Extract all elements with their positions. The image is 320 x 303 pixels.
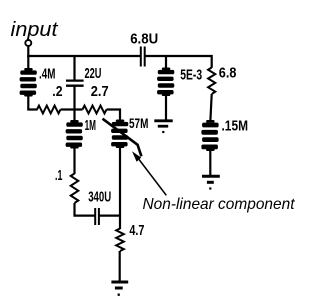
ground below 5E-3 <box>154 121 172 132</box>
non-linear slash through 57M <box>103 119 142 157</box>
svg-text:.4M: .4M <box>39 67 55 83</box>
inductor .15M <box>201 120 218 151</box>
capacitor 22U <box>66 81 84 86</box>
inductor 57M <box>111 120 128 149</box>
wire 6.8 to 15M <box>210 94 211 121</box>
resistor 6.8 <box>208 68 215 95</box>
svg-text:Non-linear component: Non-linear component <box>143 196 296 213</box>
svg-text:6.8U: 6.8U <box>130 30 158 47</box>
ground below 4.7 <box>111 282 128 295</box>
svg-text:340U: 340U <box>88 190 111 206</box>
svg-text:1M: 1M <box>85 118 96 134</box>
wire 15M to ground <box>209 151 211 176</box>
resistor 2.7 <box>83 106 107 114</box>
wire top bus right <box>145 56 212 68</box>
svg-text:input: input <box>11 19 60 41</box>
wire between .2 and 2.7 <box>61 108 83 110</box>
svg-text:57M: 57M <box>129 115 148 131</box>
annotation arrow head <box>132 151 141 162</box>
resistor .2 <box>37 106 61 114</box>
wire 1M bottom to .1 <box>73 148 75 174</box>
ground below 15M <box>202 176 220 188</box>
wire input stub <box>27 46 29 57</box>
wire 22U stub top <box>73 56 75 81</box>
wire 2.7 to 57M corner <box>107 110 121 121</box>
wire 4.7 to ground <box>119 251 121 282</box>
wire 5E-3 stub top <box>165 56 167 69</box>
wire stub inductor .4M top <box>27 56 29 69</box>
svg-text:6.8: 6.8 <box>219 66 237 82</box>
inductor .4M <box>20 68 37 97</box>
wire 57M bottom to 4.7 <box>119 147 121 229</box>
svg-text:2.7: 2.7 <box>91 84 109 100</box>
svg-text:.2: .2 <box>52 84 62 100</box>
svg-text:4.7: 4.7 <box>129 223 144 239</box>
wire 22U bottom to node <box>73 86 75 121</box>
wire 340U to 57M branch <box>99 215 121 217</box>
svg-text:.1: .1 <box>55 168 62 184</box>
annotation arrow shaft <box>139 159 167 196</box>
resistor 4.7 <box>116 229 124 252</box>
svg-text:5E-3: 5E-3 <box>180 67 202 83</box>
inductor 5E-3 <box>157 68 174 97</box>
wire top bus left <box>27 55 141 57</box>
wire 5E-3 to ground <box>165 96 167 121</box>
input terminal <box>25 40 31 46</box>
svg-text:22U: 22U <box>85 66 102 82</box>
wire .4M bottom corner <box>28 96 37 110</box>
capacitor 6.8U <box>141 47 145 67</box>
svg-text:.15M: .15M <box>222 119 249 135</box>
resistor .1 <box>71 174 79 204</box>
wire .1 bottom corner to 340U <box>75 203 96 216</box>
capacitor 340U <box>95 208 99 225</box>
inductor 1M <box>66 120 83 149</box>
